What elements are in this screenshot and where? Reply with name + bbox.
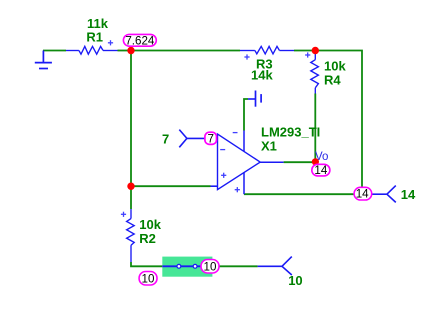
wire node A to R3 xyxy=(131,50,240,52)
plus mark inside op-amp xyxy=(221,173,226,178)
node label oval 10 below wire xyxy=(139,272,157,286)
junction node B xyxy=(312,47,319,54)
node label oval 10 on wire xyxy=(201,260,219,274)
svg-text:10: 10 xyxy=(288,273,302,288)
wire node C to op-amp plus input xyxy=(131,185,211,187)
op-amp noninverting input stub xyxy=(211,185,218,187)
wire R3 to node B xyxy=(294,50,315,52)
ground xyxy=(35,51,52,69)
wire op-amp V+ to supply bar xyxy=(244,99,248,131)
pin 14 connector xyxy=(372,186,396,203)
pin 7 connector xyxy=(179,130,187,148)
svg-text:10: 10 xyxy=(142,272,155,285)
svg-text:7: 7 xyxy=(162,131,169,146)
wire R2 bottom corner to highlight xyxy=(131,262,162,266)
op-amp X1 triangle xyxy=(218,134,261,190)
resistor R4 xyxy=(311,51,319,94)
op-amp inverting input wire from pin 7 xyxy=(187,137,205,139)
svg-text:X1: X1 xyxy=(261,138,277,153)
resistor R3 xyxy=(240,46,294,54)
wire node B to top-right corner and down xyxy=(315,51,362,188)
junction node C xyxy=(127,183,134,190)
wire op-amp output to node Vo xyxy=(284,161,316,163)
junction node Vo xyxy=(312,158,319,165)
selection highlight on wire segment xyxy=(162,257,212,277)
node label oval 14 on wire xyxy=(354,187,372,200)
node label oval 7 xyxy=(205,132,217,145)
svg-text:7.624: 7.624 xyxy=(125,34,155,47)
op-amp output lead xyxy=(260,161,284,163)
plus mark below op-amp xyxy=(235,187,240,192)
svg-text:14: 14 xyxy=(401,187,416,202)
supply bar short xyxy=(260,94,262,103)
supply bar long xyxy=(255,91,257,107)
plus mark R1 xyxy=(108,40,113,45)
wire oval 10 to pin 10 xyxy=(220,265,258,267)
selection handle 1 xyxy=(177,264,181,268)
wire R4 bottom to node Vo xyxy=(314,94,316,163)
svg-text:R4: R4 xyxy=(324,72,341,87)
op-amp V+ pin xyxy=(243,131,245,152)
resistor R1 xyxy=(66,46,118,54)
node label oval 7.624 xyxy=(123,34,156,47)
plus mark R4 xyxy=(305,52,310,57)
svg-text:10: 10 xyxy=(204,260,217,273)
wire lower net 14 horizontal xyxy=(244,193,372,195)
svg-text:14: 14 xyxy=(356,188,369,201)
plus mark R3 xyxy=(244,54,249,59)
minus mark inside op-amp xyxy=(220,149,225,151)
supply lead stub xyxy=(248,98,256,100)
pin 10 connector xyxy=(258,257,292,275)
svg-text:R1: R1 xyxy=(86,30,103,45)
wire R1 to node A xyxy=(118,50,132,52)
svg-text:7: 7 xyxy=(207,132,213,145)
node label oval 14 at Vo xyxy=(312,164,330,177)
plus mark R2 xyxy=(121,212,126,217)
wire ground to R1 xyxy=(43,50,66,52)
selection handle 2 xyxy=(193,264,197,268)
wire node C down to R2 xyxy=(130,186,132,209)
wire node A down to node C xyxy=(130,51,132,187)
svg-text:10k: 10k xyxy=(139,217,161,232)
svg-text:14: 14 xyxy=(314,164,327,177)
resistor R2 xyxy=(127,209,135,262)
junction node A xyxy=(127,47,134,54)
svg-text:R2: R2 xyxy=(139,231,156,246)
op-amp V- pin xyxy=(243,172,245,194)
svg-text:LM293_TI: LM293_TI xyxy=(261,124,320,139)
svg-text:14k: 14k xyxy=(251,68,273,83)
selected wire segment (net 10) xyxy=(162,265,201,267)
minus mark above op-amp xyxy=(233,132,238,134)
